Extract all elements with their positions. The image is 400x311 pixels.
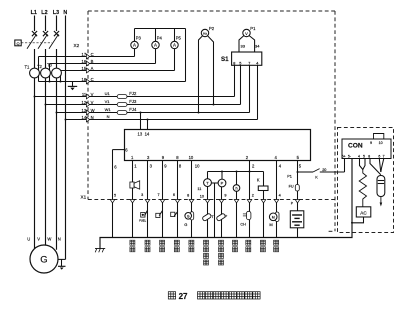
meter P1 [243, 29, 250, 36]
svg-text:G: G [40, 255, 47, 266]
junction wire14 [147, 119, 149, 121]
terminal X2 pin 14 N [86, 117, 89, 122]
wire ammeter P3 top lead [134, 29, 136, 42]
svg-text:X1: X1 [81, 194, 87, 199]
wire 1 column [132, 161, 134, 238]
wire AC return [352, 217, 364, 223]
svg-text:P2: P2 [209, 26, 215, 31]
wire 2 column [249, 161, 251, 238]
svg-text:14: 14 [82, 115, 87, 120]
gauge WT T [207, 172, 209, 179]
svg-text:A: A [173, 43, 176, 48]
svg-text:CON: CON [348, 143, 363, 150]
svg-text:14: 14 [145, 132, 150, 137]
label 马达 [260, 240, 265, 245]
wire 4 column [276, 161, 278, 238]
svg-text:A: A [133, 43, 136, 48]
title figure 27 [168, 292, 175, 299]
svg-text:X2: X2 [74, 43, 80, 48]
battery GB [290, 211, 304, 228]
CT T3 circle [52, 68, 62, 78]
wire phase L1 upper segment [34, 16, 36, 32]
wire neutral N vertical [65, 16, 67, 260]
starter motor M [275, 212, 279, 222]
wire T-P link [211, 182, 218, 184]
wire CON pin8 to injector [370, 159, 381, 175]
wire 6 column [112, 150, 114, 238]
label 计时 [233, 240, 238, 245]
svg-text:V: V [91, 100, 94, 105]
terminal strip X2 dashed [87, 11, 89, 200]
junction N row14 [65, 119, 67, 121]
svg-text:P3: P3 [136, 35, 142, 40]
svg-text:N: N [91, 115, 94, 120]
wire ammeter top bus [135, 28, 186, 30]
svg-text:5: 5 [114, 194, 116, 198]
svg-text:7: 7 [383, 154, 385, 158]
svg-text:12: 12 [82, 100, 87, 105]
svg-text:N: N [107, 114, 110, 119]
svg-text:L1: L1 [31, 10, 37, 16]
wire battery to bus [297, 228, 299, 238]
label 油压传感 [219, 240, 224, 245]
wire 13 tap [140, 113, 142, 130]
label 油门 [246, 240, 251, 245]
water temp sensor [202, 213, 212, 221]
wire S1 pin7 to row13 [249, 65, 251, 112]
wire row 14 N [66, 119, 258, 121]
svg-text:6: 6 [173, 193, 175, 197]
meter P2 [201, 29, 208, 36]
wire row 18 C common [39, 81, 186, 83]
svg-text:6: 6 [378, 154, 380, 158]
engine ground bus [100, 159, 352, 249]
ground symbol generator neutral [58, 265, 66, 267]
horn HA [130, 182, 134, 188]
svg-text:L2: L2 [41, 10, 47, 16]
svg-text:11: 11 [82, 92, 87, 97]
panel enclosure dashed top [88, 10, 335, 12]
svg-text:A: A [154, 43, 157, 48]
breaker QF pole 2 contact cross [43, 31, 48, 36]
wire K to starter column [263, 191, 265, 238]
fuel valve needle [380, 197, 382, 203]
junction wire13 [140, 112, 142, 114]
svg-text:P: P [221, 181, 224, 186]
wire 3 column [147, 161, 149, 238]
wire row 15 A [61, 70, 175, 72]
wire ammeter P4 bottom lead [155, 49, 157, 64]
wire P sensor column [221, 187, 223, 238]
junction AC return [351, 222, 353, 224]
X1 pin 9 marker [219, 200, 224, 203]
label 报警 [130, 240, 135, 245]
wire P1 lead 34 [249, 36, 254, 52]
svg-text:W1: W1 [105, 107, 112, 112]
svg-text:G: G [187, 214, 190, 218]
svg-text:5: 5 [239, 62, 241, 66]
svg-text:M: M [272, 216, 275, 220]
relay K coil [258, 186, 268, 191]
gauge hour h [236, 171, 238, 173]
junction wire5 [297, 171, 299, 173]
wire 10 column [191, 161, 193, 238]
wire CT T3 secondary to terminal [60, 70, 62, 72]
breaker QF pole 1 contact cross [32, 31, 37, 36]
terminal X2 pin 12 V [86, 102, 89, 107]
wire row 12 V (V1) [46, 104, 241, 106]
oil pressure switch [171, 212, 175, 216]
X1 pin 3 marker [145, 200, 150, 203]
wire ammeter P5 bottom lead [174, 49, 176, 71]
svg-text:13: 13 [82, 108, 87, 113]
svg-text:10: 10 [189, 155, 194, 160]
wire 9 column [162, 161, 164, 238]
svg-text:8: 8 [368, 154, 370, 158]
junction wire2 gauge bus [249, 171, 251, 173]
wire CON pin5 to heater [363, 159, 365, 170]
label 水温传感 [204, 240, 209, 245]
fuse FU battery [295, 185, 299, 192]
svg-text:8: 8 [233, 62, 235, 66]
wire T sensor column [207, 187, 209, 238]
ammeter P4 [152, 41, 159, 48]
terminal X2 pin 13 W [86, 110, 89, 115]
svg-text:Q: Q [16, 41, 19, 46]
wire phase L3 upper segment [56, 16, 58, 32]
CON jumper 9-10 [374, 134, 384, 140]
svg-text:P: P [225, 215, 228, 219]
wire gauge ground column [214, 183, 216, 238]
contact K blade [313, 169, 320, 172]
wire 14 tap [147, 120, 149, 130]
X1 hour marker [234, 200, 239, 203]
svg-text:4: 4 [358, 154, 360, 158]
operator Q box [15, 40, 21, 46]
CT T2 circle [41, 68, 51, 78]
svg-text:W: W [91, 108, 95, 113]
svg-text:11: 11 [197, 187, 201, 191]
svg-text:V1: V1 [105, 99, 111, 104]
svg-text:10: 10 [200, 194, 204, 198]
terminal X2 pin 17 C [86, 54, 89, 59]
junction T3 common [60, 81, 62, 83]
X1 pin 7 marker [160, 200, 165, 203]
svg-text:7: 7 [157, 193, 159, 197]
wire S1 pin5 to row12 [240, 65, 242, 104]
svg-text:8: 8 [187, 194, 189, 198]
terminal strip X1 dashed [88, 199, 335, 201]
terminal X2 pin 11 V [86, 94, 89, 99]
svg-text:h: h [235, 187, 237, 191]
breaker QF pole 3 contact cross [54, 31, 59, 36]
label 油压 [174, 240, 179, 245]
svg-text:17: 17 [82, 52, 87, 57]
svg-text:K: K [257, 177, 260, 182]
wire row 13 W (W1) [57, 112, 250, 114]
svg-text:2: 2 [252, 193, 254, 197]
svg-text:4: 4 [279, 193, 281, 197]
svg-text:13: 13 [138, 132, 143, 137]
engine ground symbol [95, 248, 105, 250]
charge indicator G [190, 212, 194, 220]
svg-text:N: N [63, 10, 67, 16]
svg-text:W: W [47, 237, 51, 242]
wire P2 left lead [199, 36, 203, 113]
wire ammeter P4 top lead [155, 29, 157, 42]
svg-text:V: V [91, 92, 94, 97]
svg-text:4: 4 [256, 62, 258, 66]
X1 pin 2 marker [247, 200, 252, 203]
wire CT T1 secondary to terminal [38, 57, 40, 71]
svg-text:9: 9 [224, 194, 226, 198]
wire phase L2 upper segment [45, 16, 47, 32]
wire 5 column lower [297, 191, 299, 211]
X1 pin 8 marker [189, 200, 194, 203]
wire gauge supply bus [208, 171, 264, 173]
wire CT T3 secondary to common [60, 76, 62, 82]
control board box [125, 130, 311, 161]
throttle solenoid CH [247, 211, 251, 219]
svg-text:FJ2: FJ2 [129, 91, 137, 96]
svg-text:B: B [91, 59, 94, 64]
terminal X2 pin 15 A [86, 68, 89, 73]
AC box [356, 207, 371, 217]
label 水温 [160, 240, 165, 245]
board pin 6 stub [113, 149, 125, 151]
oil pressure sensor [216, 213, 226, 221]
junction P2 row12 [213, 104, 215, 106]
wire S1 pin8 to row11 [234, 65, 236, 96]
CON box [342, 139, 391, 159]
svg-text:G: G [184, 222, 187, 227]
wire CT T2 secondary to common [49, 76, 51, 82]
fuse FJ4 [117, 111, 127, 115]
panel enclosure dashed right [334, 11, 336, 231]
CON dashed enclosure [338, 128, 394, 233]
svg-text:16: 16 [82, 59, 87, 64]
selector switch S1 box [232, 52, 262, 65]
svg-text:15: 15 [82, 66, 87, 71]
fuse FJ3 [117, 103, 127, 107]
svg-text:5+: 5+ [342, 154, 346, 158]
wire phase W down to generator [56, 49, 58, 250]
X1 horn marker [130, 200, 135, 203]
fuel valve cylinder [377, 176, 385, 197]
breaker QF pole 1 blade [27, 34, 37, 49]
wire generator neutral link [58, 258, 66, 260]
wire 5 column upper [297, 161, 299, 185]
svg-text:FU: FU [289, 184, 294, 188]
ground symbol CT common [72, 82, 74, 87]
svg-text:S1: S1 [221, 56, 229, 63]
wire P1 lead 33 [239, 36, 244, 52]
svg-text:27: 27 [179, 292, 188, 301]
svg-text:FUEL: FUEL [139, 218, 146, 222]
wire phase U down to generator [34, 49, 36, 249]
wire row 17 C [39, 56, 135, 58]
wire 8 column [177, 161, 179, 238]
wire 20 to CON [298, 171, 314, 173]
svg-text:5: 5 [363, 154, 365, 158]
svg-text:3: 3 [141, 193, 143, 197]
wire CT T1 secondary to common [38, 76, 40, 82]
junction W row13 [56, 112, 58, 114]
ammeter P5 [171, 41, 178, 48]
svg-text:T1: T1 [25, 65, 31, 70]
svg-text:10: 10 [195, 164, 200, 169]
breaker QF pole 2 blade [38, 34, 48, 49]
svg-text:CH: CH [240, 222, 246, 226]
svg-text:P1: P1 [250, 26, 256, 31]
glow plug heater zigzag [359, 170, 366, 207]
svg-text:AC: AC [360, 211, 367, 216]
wire CON pin7 to injector [381, 159, 384, 173]
X1 starter marker [261, 200, 266, 203]
X1 pin 4 marker [274, 200, 279, 203]
fuse FJ2 [117, 95, 127, 99]
wire ammeter common return [185, 29, 187, 82]
ammeter P3 [131, 41, 138, 48]
breaker linkage dashed [21, 42, 52, 44]
CT T1 circle [30, 68, 40, 78]
wire row 16 B [50, 63, 156, 65]
wire ammeter P3 bottom lead [134, 49, 136, 57]
X1 pin 10 marker [205, 200, 210, 203]
generator G circle [30, 245, 58, 273]
junction V row12 [45, 104, 47, 106]
junction T2 common [49, 81, 51, 83]
panel enclosure dashed bottom hook [329, 230, 335, 232]
svg-text:P1: P1 [287, 174, 292, 178]
X1 pin 5 marker [110, 200, 115, 203]
svg-text:V: V [245, 31, 248, 36]
relay K coil feed [263, 172, 265, 187]
svg-text:M: M [269, 222, 272, 227]
svg-text:18: 18 [82, 77, 87, 82]
breaker QF pole 3 blade [49, 34, 59, 49]
water temp switch [156, 213, 160, 217]
svg-text:U1: U1 [105, 91, 111, 96]
wire hour meter column [236, 191, 238, 237]
svg-text:FJ4: FJ4 [129, 107, 137, 112]
svg-text:T2: T2 [37, 64, 43, 69]
svg-text:V: V [37, 237, 40, 242]
wire CON pin4 to heater [360, 159, 363, 170]
svg-text:33: 33 [241, 44, 246, 49]
svg-text:Hz: Hz [203, 32, 207, 36]
svg-text:L3: L3 [53, 10, 59, 16]
svg-text:A: A [91, 66, 94, 71]
svg-text:C: C [91, 52, 94, 57]
svg-text:C: C [91, 77, 94, 82]
X1 battery marker [295, 200, 300, 203]
label 油位 [145, 240, 150, 245]
svg-text:U: U [27, 237, 30, 242]
label 电池 [274, 240, 279, 245]
svg-text:7: 7 [248, 62, 250, 66]
label 充电 [189, 240, 194, 245]
svg-text:P5: P5 [176, 35, 182, 40]
wire CON 5+ [344, 159, 346, 173]
X1 pin 6 marker [175, 200, 180, 203]
wire CT T2 secondary to terminal [49, 64, 51, 71]
terminal X2 pin 16 B [86, 61, 89, 66]
svg-text:9: 9 [370, 141, 372, 145]
wire S1 pin4 to row14 [257, 65, 259, 119]
svg-text:FJ3: FJ3 [129, 99, 137, 104]
fuel level switch [141, 213, 145, 218]
svg-text:N: N [58, 237, 61, 242]
wire row 11 V (U1) [35, 96, 235, 98]
wire ammeter P5 top lead [174, 29, 176, 42]
svg-text:20: 20 [322, 168, 326, 172]
wire CON pin6 to injector [379, 159, 381, 173]
gauge OP P [221, 171, 223, 173]
title text blocks [198, 292, 205, 299]
svg-text:P4: P4 [157, 35, 163, 40]
terminal X2 pin 18 C [86, 79, 89, 84]
wire P2 right lead [208, 36, 214, 105]
junction P2 row13 [198, 112, 200, 114]
junction U row11 [34, 96, 36, 98]
svg-text:34: 34 [255, 44, 260, 49]
svg-text:10: 10 [379, 141, 383, 145]
wire phase V down to generator [45, 49, 47, 245]
